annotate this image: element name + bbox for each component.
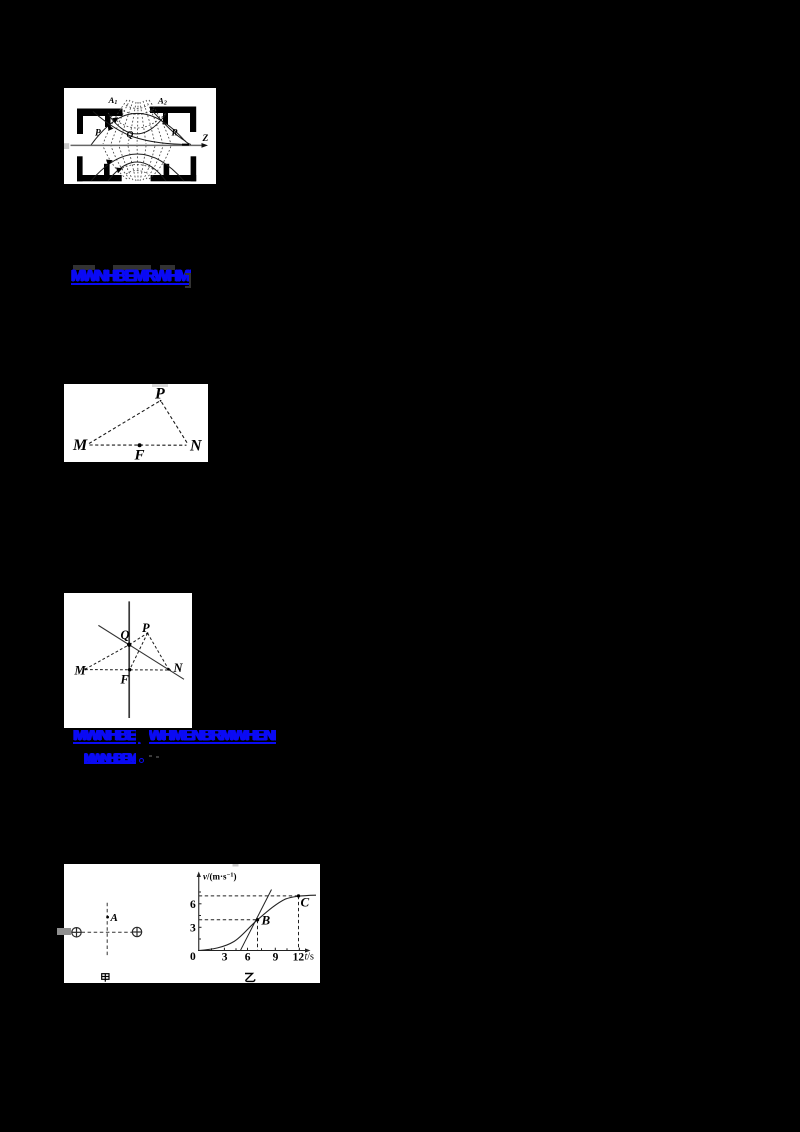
tangent line	[241, 889, 272, 950]
svg-text:P: P	[95, 128, 101, 138]
svg-text:9: 9	[273, 951, 279, 963]
axis numbers	[190, 899, 304, 964]
blue link line 3	[84, 753, 137, 764]
svg-text:A: A	[110, 912, 118, 924]
bottom solid dome arc inner	[108, 162, 166, 181]
focus dash on axis	[182, 143, 189, 145]
svg-text:N: N	[172, 661, 183, 675]
axis Z	[71, 144, 206, 146]
gray blob left edge	[64, 143, 69, 149]
dashed arcs bottom	[119, 164, 155, 174]
blue link line 2 segment a	[73, 730, 136, 744]
svg-text:M: M	[73, 663, 86, 677]
svg-text:6: 6	[190, 899, 196, 911]
charge 2 circled plus	[132, 927, 141, 936]
dashed line between charges	[82, 931, 133, 933]
svg-text:F: F	[119, 672, 129, 686]
dashed side M-N	[90, 444, 187, 446]
point M	[84, 668, 86, 670]
svg-text:3: 3	[190, 922, 196, 934]
blue link line 2 segment b	[149, 730, 277, 744]
point N	[167, 668, 170, 671]
svg-text:v/(m·s−1): v/(m·s−1)	[203, 871, 236, 881]
dashed side P-N	[162, 402, 188, 444]
svg-text:Q: Q	[120, 628, 129, 642]
electrode A2 top	[150, 106, 196, 132]
x ticks	[212, 947, 300, 950]
svg-text:M: M	[72, 437, 88, 454]
graph x axis	[198, 949, 307, 951]
electrode A1 bottom	[77, 156, 122, 181]
label yi (乙)	[245, 973, 255, 981]
point A	[106, 915, 109, 918]
blue link line 2 comma	[138, 737, 145, 744]
gray square at left edge of charge figure	[57, 928, 71, 935]
vertical dashed line	[106, 902, 108, 954]
small circle punctuation	[139, 758, 144, 763]
ray diagonal line	[98, 625, 184, 679]
point P tip	[147, 632, 149, 634]
svg-text:12: 12	[293, 951, 305, 963]
svg-text:t/s: t/s	[305, 951, 315, 962]
svg-text:F: F	[134, 448, 145, 463]
dashed axis M-N	[85, 669, 171, 671]
arrowhead on dome inner	[116, 167, 123, 173]
trajectory from A2 stub	[151, 109, 186, 141]
dark caps above blue line 1	[73, 265, 95, 271]
point C	[297, 894, 300, 897]
dashed field fan top	[103, 100, 171, 144]
velocity curve	[199, 895, 316, 950]
dashed Q-P	[129, 633, 147, 645]
dashed arcs top	[108, 105, 166, 128]
dark specks right of line 3	[149, 755, 152, 758]
figure: lens ray diagram image box	[64, 593, 192, 728]
charge 1 circled plus	[72, 927, 81, 936]
svg-text:R: R	[171, 128, 178, 138]
svg-text:A1: A1	[108, 95, 118, 106]
point B	[256, 918, 259, 921]
dark bracket after line 1	[185, 273, 191, 289]
electron trajectory 2	[93, 111, 188, 144]
y ticks	[199, 892, 202, 939]
svg-text:0: 0	[190, 951, 196, 963]
svg-text:A2: A2	[157, 95, 167, 106]
electrode A1 top	[77, 108, 123, 134]
axis arrowhead	[202, 143, 209, 148]
svg-text:B: B	[261, 912, 271, 927]
point Q	[127, 643, 131, 647]
dashed P-N	[147, 633, 168, 669]
gray smudge top	[233, 864, 239, 867]
point P tip	[160, 400, 162, 402]
figure: triangle M P N F image box	[64, 384, 208, 462]
svg-text:6: 6	[245, 951, 251, 963]
blue link line 1	[71, 269, 191, 285]
arrowhead on trajectory 2	[108, 124, 114, 130]
dashed to B	[199, 895, 299, 950]
dashed field fan bottom	[103, 146, 171, 181]
point F	[138, 443, 142, 447]
svg-text:C: C	[301, 894, 310, 909]
svg-text:P: P	[142, 621, 150, 635]
point F	[128, 668, 131, 671]
svg-text:Z: Z	[202, 134, 209, 144]
dashed side M-P	[89, 402, 159, 444]
dashed M-Q	[85, 645, 129, 670]
dashed P-F	[130, 633, 148, 670]
figure: charges + v-t graph image box	[64, 864, 320, 983]
bottom solid dome arc outer	[91, 154, 184, 181]
svg-text:P: P	[154, 386, 165, 403]
graph y axis	[198, 875, 200, 951]
arrowhead on dome outer	[106, 159, 113, 165]
svg-text:3: 3	[222, 951, 228, 963]
svg-text:Q: Q	[127, 130, 134, 140]
trajectory arc between stubs	[109, 114, 166, 134]
lens vertical line	[128, 601, 130, 718]
electrode A2 bottom	[151, 156, 197, 181]
figure: electrostatic lens image box	[64, 88, 216, 185]
electron trajectory 1	[91, 113, 191, 145]
gray smudge	[152, 384, 168, 387]
label jia (甲)	[102, 973, 109, 981]
svg-text:N: N	[189, 438, 203, 455]
arrowhead on trajectory 1	[112, 117, 118, 123]
